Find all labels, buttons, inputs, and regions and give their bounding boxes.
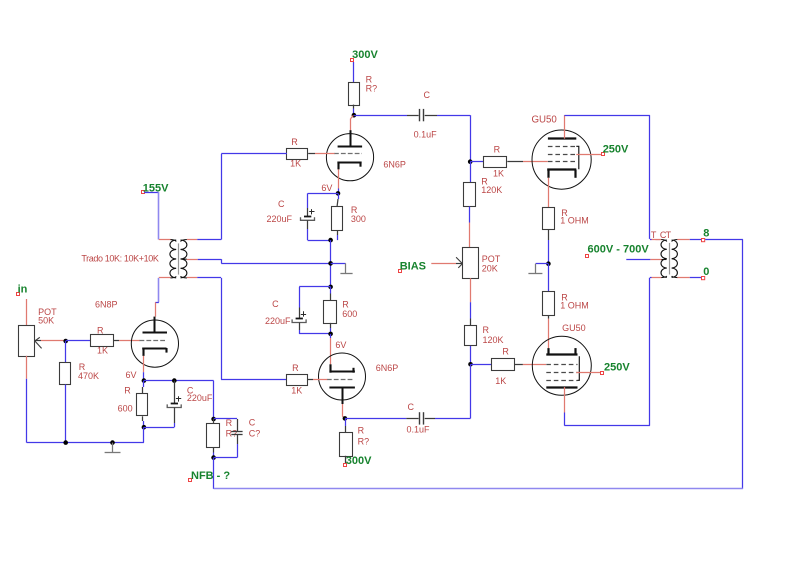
svg-text:R: R xyxy=(292,363,299,373)
svg-text:GU50: GU50 xyxy=(532,114,558,125)
svg-text:R: R xyxy=(494,145,501,155)
svg-text:6N6P: 6N6P xyxy=(383,160,406,170)
svg-text:R: R xyxy=(97,325,104,335)
svg-text:R?: R? xyxy=(366,84,378,94)
svg-text:6N6P: 6N6P xyxy=(376,363,399,373)
svg-text:6V: 6V xyxy=(321,183,332,193)
svg-text:120K: 120K xyxy=(481,185,502,195)
svg-text:C: C xyxy=(408,402,415,412)
svg-text:R: R xyxy=(124,386,131,396)
svg-text:6V: 6V xyxy=(335,340,346,350)
svg-text:600: 600 xyxy=(342,309,357,319)
svg-text:470K: 470K xyxy=(78,371,99,381)
svg-text:1K: 1K xyxy=(291,385,302,395)
svg-text:250V: 250V xyxy=(604,361,630,373)
svg-text:300V: 300V xyxy=(346,455,372,467)
svg-text:R: R xyxy=(483,325,490,335)
svg-text:R: R xyxy=(358,426,365,436)
svg-text:R: R xyxy=(226,418,233,428)
svg-text:220uF: 220uF xyxy=(267,214,293,224)
svg-text:0: 0 xyxy=(703,266,709,278)
svg-text:T_CT: T_CT xyxy=(651,230,672,240)
svg-text:6V: 6V xyxy=(126,370,137,380)
svg-text:in: in xyxy=(18,283,28,295)
svg-text:300V: 300V xyxy=(352,49,378,61)
svg-text:600V - 700V: 600V - 700V xyxy=(588,244,650,256)
svg-text:Trado 10K: 10K+10K: Trado 10K: 10K+10K xyxy=(81,253,159,263)
svg-text:1K: 1K xyxy=(493,169,504,179)
svg-text:6N8P: 6N8P xyxy=(95,300,118,310)
svg-text:BIAS: BIAS xyxy=(400,261,426,273)
svg-text:R?: R? xyxy=(226,428,238,438)
svg-text:300: 300 xyxy=(351,214,366,224)
svg-text:220uF: 220uF xyxy=(187,393,213,403)
svg-text:8: 8 xyxy=(703,228,709,240)
svg-text:1K: 1K xyxy=(495,376,506,386)
svg-text:1K: 1K xyxy=(290,159,301,169)
svg-text:1 OHM: 1 OHM xyxy=(560,216,589,226)
svg-text:0.1uF: 0.1uF xyxy=(414,130,438,140)
svg-text:120K: 120K xyxy=(483,335,504,345)
svg-text:50K: 50K xyxy=(38,315,54,325)
svg-text:250V: 250V xyxy=(603,143,629,155)
svg-text:C: C xyxy=(249,417,256,427)
svg-text:R: R xyxy=(502,347,509,357)
svg-text:600: 600 xyxy=(118,403,133,413)
svg-text:220uF: 220uF xyxy=(265,316,291,326)
svg-text:GU50: GU50 xyxy=(562,323,586,333)
svg-text:0.1uF: 0.1uF xyxy=(407,424,431,434)
svg-text:C: C xyxy=(278,199,285,209)
svg-text:R?: R? xyxy=(358,437,370,447)
svg-text:R: R xyxy=(291,137,298,147)
svg-text:C: C xyxy=(424,90,431,100)
svg-text:C?: C? xyxy=(249,428,261,438)
svg-text:20K: 20K xyxy=(482,264,498,274)
svg-text:NFB - ?: NFB - ? xyxy=(191,470,230,482)
svg-text:C: C xyxy=(272,299,279,309)
svg-text:1 OHM: 1 OHM xyxy=(560,301,589,311)
svg-text:1K: 1K xyxy=(97,346,108,356)
